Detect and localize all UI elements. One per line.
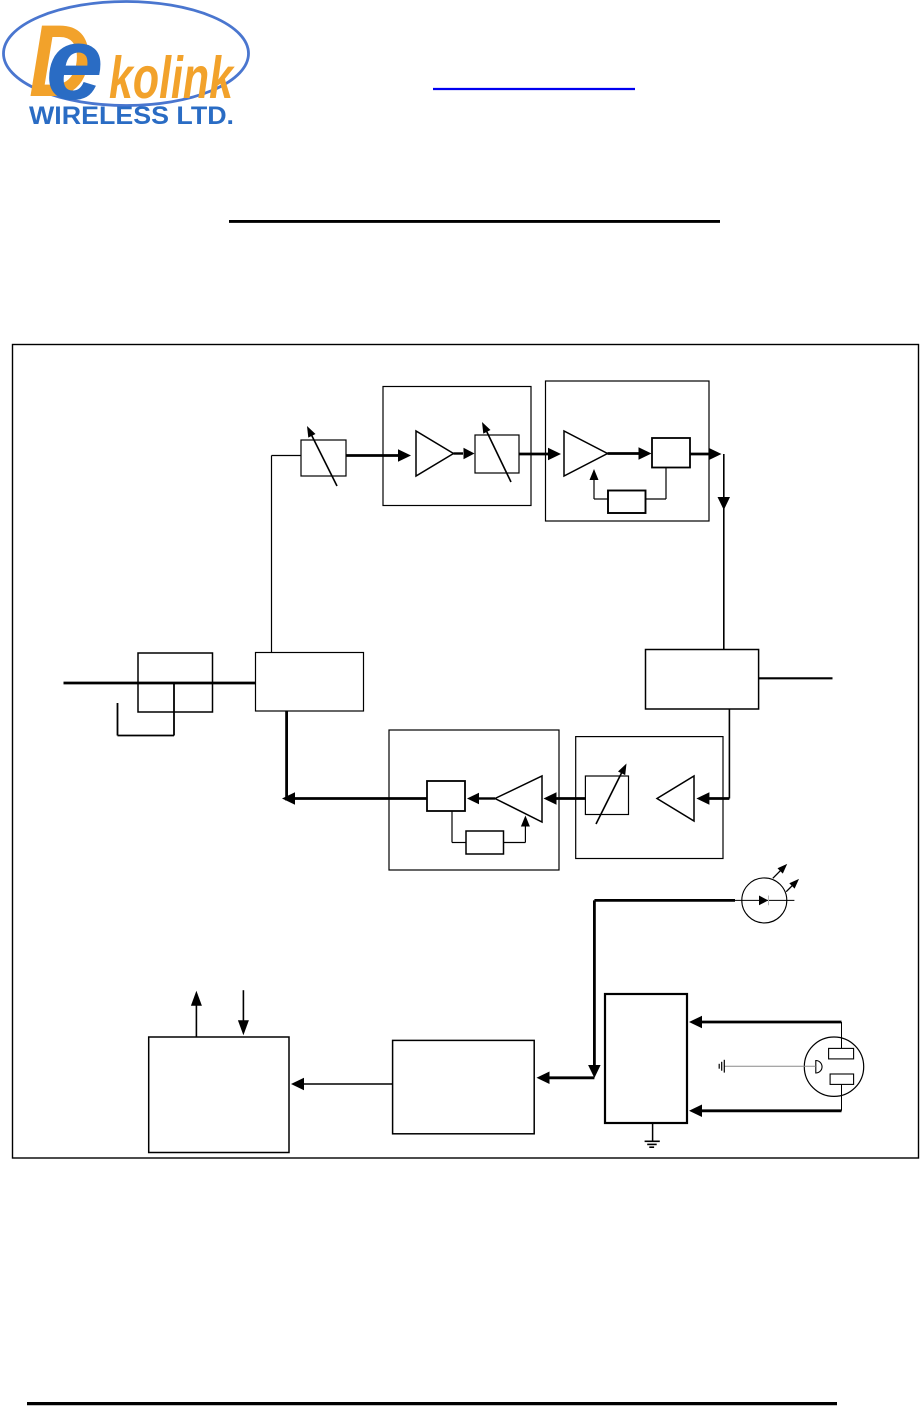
LED ray 1 — [773, 864, 787, 878]
amplifier A2 — [564, 431, 608, 476]
AC line wire bottom — [689, 1105, 842, 1118]
amplifier A4 — [657, 776, 694, 821]
svg-text:WIRELESS LTD.: WIRELESS LTD. — [29, 102, 234, 130]
amplifier A1 — [416, 431, 454, 476]
downlink LNA module U4 — [576, 737, 723, 859]
diagram outer border — [13, 345, 919, 1159]
wire arrow AT2 to U2 — [519, 448, 561, 460]
earth symbol (rotated) — [719, 1060, 724, 1073]
wire arrow U2 output — [690, 448, 722, 460]
ALC block FB1 — [608, 491, 646, 514]
logo word kolink — [109, 45, 235, 111]
left antenna port line — [64, 682, 256, 685]
converter box — [393, 1040, 535, 1133]
wire to LED — [594, 899, 794, 902]
power supply unit PSU — [605, 994, 687, 1123]
coupler DET2 — [427, 781, 465, 811]
wire U2 output down to duplexer UR — [718, 454, 731, 650]
plug wire bottom — [841, 1084, 843, 1110]
plug earth wire — [725, 1065, 816, 1067]
wire arrow A1 to AT2 — [454, 448, 475, 459]
left port box — [138, 653, 213, 712]
variable attenuator AT1 — [301, 426, 346, 486]
plug wire top — [841, 1022, 843, 1048]
ALC block FB2 — [466, 831, 504, 854]
duplexer right — [646, 650, 759, 710]
logo letter D — [29, 4, 91, 118]
wire arrow A3 to DET2 — [467, 793, 495, 804]
uplink PA module U2 — [546, 381, 710, 521]
amplifier A3 — [495, 776, 542, 822]
wire duplexer right down to U4 — [728, 709, 730, 799]
variable attenuator AT3 — [585, 764, 628, 825]
arrow converter to modem — [291, 1078, 393, 1090]
wire arrow A2 to DET1 — [608, 447, 652, 460]
uplink LNA module U1 — [383, 387, 531, 506]
footer rule — [27, 1402, 837, 1405]
ALC feedback arrow to A2 — [590, 469, 609, 499]
right antenna port line — [759, 677, 833, 679]
hyperlink underline (blue) — [433, 88, 635, 90]
modem box — [149, 1037, 289, 1153]
wire arrow AT3 to A3 — [544, 792, 586, 805]
wire arrow into A4 — [696, 792, 729, 805]
modem TX arrow — [191, 991, 202, 1037]
logo WIRELESS LTD. — [29, 102, 234, 130]
title underline — [229, 220, 720, 223]
modem RX arrow — [238, 990, 249, 1035]
downlink output arrow to duplexer left — [282, 792, 427, 805]
coupler DET1 — [652, 438, 690, 468]
wire junction to converter — [537, 1072, 595, 1085]
AC line wire top — [689, 1016, 842, 1028]
LED ray 2 — [786, 879, 799, 892]
wire arrow AT1 to U1 — [346, 449, 411, 462]
wire AT1 to duplexer UL — [272, 456, 302, 654]
wire duplexer left down to DL out — [285, 711, 288, 801]
duplexer left — [256, 653, 364, 712]
PSU ground — [645, 1123, 660, 1147]
AC plug P1 — [804, 1037, 863, 1096]
logo ellipse — [4, 2, 249, 106]
downlink PA module U3 — [389, 730, 559, 870]
hook stub wire — [118, 683, 175, 736]
variable attenuator AT2 — [475, 422, 519, 482]
wire LED down to junction — [588, 900, 601, 1078]
status LED D1 — [742, 878, 787, 923]
ALC feedback wire U3 — [452, 811, 466, 843]
logo letter e — [46, 6, 103, 121]
ALC feedback wire U2 — [646, 468, 667, 500]
ALC feedback arrow to A3 — [504, 816, 530, 843]
